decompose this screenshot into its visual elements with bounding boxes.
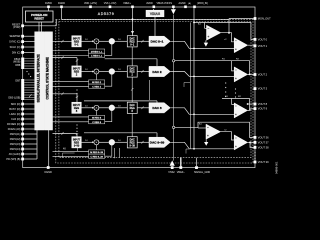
bottom pin VSS2 with input arrow	[168, 160, 175, 174]
svg-text:VREF–: VREF–	[177, 171, 186, 174]
svg-text:DCEN (A0): DCEN (A0)	[8, 128, 21, 131]
svg-text:DAC 8: DAC 8	[152, 106, 162, 110]
second sense rail	[189, 23, 191, 149]
right pin VOUT9	[254, 107, 268, 111]
mux arrow below amp C	[204, 139, 208, 146]
wire amp A to amp B	[221, 33, 234, 42]
junction rail row2	[193, 76, 195, 78]
svg-text:VSS (–15V): VSS (–15V)	[104, 2, 117, 5]
svg-text:C REG 9–39: C REG 9–39	[90, 156, 103, 158]
top pin VOFFS	[164, 2, 175, 8]
left pin BUSY	[9, 108, 34, 111]
wire c reg column row4 down	[119, 148, 121, 158]
wire DGND stub	[61, 8, 63, 20]
row2 feedback into amp	[232, 61, 235, 71]
wire adder to dac reg row1	[115, 39, 128, 41]
wire dac reg to dac 9-39	[137, 141, 149, 143]
bracket mark near signal gnd	[186, 149, 190, 154]
right pin VOUT38	[254, 145, 270, 149]
dac register 8	[127, 102, 137, 113]
svg-text:LDAC (D): LDAC (D)	[9, 113, 20, 116]
wire input reg to multiplier row3	[81, 106, 94, 109]
svg-text:DB0 (LSB): DB0 (LSB)	[8, 97, 20, 100]
svg-text:DAC 2: DAC 2	[152, 70, 162, 74]
svg-text:0–1: 0–1	[130, 43, 135, 46]
reference rail x193	[193, 8, 195, 149]
multiplier row4	[94, 140, 99, 145]
svg-text:DIN (C): DIN (C)	[12, 51, 21, 54]
row1 switch rail to amp B input	[189, 47, 234, 49]
outer dashed group box	[56, 20, 253, 163]
input register 0-1	[72, 36, 82, 47]
row3 switch rail to amp input	[189, 113, 234, 115]
left pin SCLK	[10, 46, 35, 49]
wire DVDD stub to POR	[48, 8, 50, 11]
svg-text:VBIAS: VBIAS	[156, 2, 163, 5]
wire adder to dac reg row3	[115, 106, 128, 108]
left pin RESET	[12, 20, 56, 29]
wire C reg up to adder row1	[105, 44, 112, 55]
svg-text:+: +	[110, 69, 113, 74]
svg-text:VDD (+15V): VDD (+15V)	[84, 2, 97, 5]
wire state machine to M reg row3	[53, 116, 89, 118]
svg-text:DAC 9–39: DAC 9–39	[150, 141, 165, 145]
bus annotation x40	[63, 148, 75, 159]
wire multiplier to adder row4	[99, 141, 109, 143]
top pin DGND	[58, 2, 65, 8]
row2 sense ring junction	[172, 60, 174, 62]
svg-text:+: +	[110, 140, 113, 145]
dac 9-39 pentagon	[149, 137, 170, 147]
wire state machine to C reg row2	[53, 85, 89, 87]
bus line to row2 input reg	[53, 58, 158, 66]
junction dot amp A output	[228, 32, 230, 34]
left pin FIFOEN	[7, 123, 35, 126]
svg-text:+: +	[110, 39, 113, 44]
channel continuation dots middle	[76, 89, 77, 97]
dac 2 pentagon	[149, 66, 170, 76]
top pin VREF	[123, 2, 134, 8]
C register 0-1	[89, 53, 105, 57]
svg-text:VOUT 1: VOUT 1	[258, 44, 268, 48]
svg-text:SCLK (C): SCLK (C)	[10, 46, 21, 49]
svg-text:RESET: RESET	[34, 17, 44, 21]
svg-text:SIGNAL_GND: SIGNAL_GND	[194, 171, 210, 174]
wire input reg to multiplier row4	[81, 140, 94, 143]
left pin SER/PAR	[10, 35, 35, 38]
left pin PD	[6, 158, 37, 161]
svg-text:VOUT 0: VOUT 0	[258, 37, 268, 41]
wire feedback to amp C input	[198, 127, 206, 129]
junction rail feedback row1	[193, 22, 195, 24]
row3 feedback line	[222, 96, 250, 110]
right pin VOUT37	[254, 140, 270, 144]
svg-text:SYNC (C): SYNC (C)	[9, 41, 20, 44]
interface block	[35, 32, 45, 130]
wire VBIAS pin to VBIAS buffer	[153, 9, 155, 10]
M register 2	[89, 80, 105, 84]
svg-text:VOUT 36: VOUT 36	[258, 135, 269, 139]
wire amp row3 to VOUT9	[248, 109, 254, 111]
adder row3	[109, 105, 115, 111]
parallel bus pins DB13-DB8	[13, 58, 34, 70]
svg-text:DB7: DB7	[15, 80, 20, 83]
wire state machine to M reg row4	[53, 150, 89, 152]
svg-text:×: ×	[95, 40, 97, 44]
row4 output switch	[170, 142, 189, 149]
bus line to row4 input reg	[53, 133, 158, 138]
bottom pin VREF- double wire	[177, 158, 186, 174]
VOFFS rail vertical full height	[173, 15, 175, 161]
multiplier M (x) row1	[94, 39, 99, 44]
svg-text:CONTROL STATE MACHINE: CONTROL STATE MACHINE	[45, 57, 49, 99]
M register 8	[89, 115, 105, 119]
svg-text:DSP/(A1): DSP/(A1)	[10, 133, 21, 136]
bus ellipsis dots	[26, 71, 31, 77]
wire C reg up to adder row3	[105, 111, 112, 122]
left pin A5	[9, 153, 37, 156]
svg-text:DSP/(A3): DSP/(A3)	[10, 143, 21, 146]
M register 0-1	[89, 49, 105, 53]
dac register 9-39	[127, 137, 137, 148]
svg-text:CLR (D): CLR (D)	[11, 118, 20, 121]
right pin VOUT2	[254, 73, 268, 77]
svg-text:DSP/(A2): DSP/(A2)	[10, 138, 21, 141]
bottom pin DGND	[45, 166, 53, 174]
wire state machine to C reg row3	[53, 121, 89, 123]
row3 feedback into amp	[232, 99, 235, 105]
left pin A4	[10, 148, 37, 151]
svg-text:AGND: AGND	[179, 2, 186, 5]
svg-text:SER/PAR: SER/PAR	[10, 35, 21, 38]
wire state machine to M reg row1	[53, 50, 89, 52]
svg-text:MON_OUT: MON_OUT	[258, 17, 271, 21]
svg-text:DB8: DB8	[15, 64, 20, 67]
op-amp row2	[234, 67, 247, 82]
wire adder to dac reg row2	[115, 69, 128, 71]
wire multiplier to adder row2	[99, 71, 109, 73]
VREF distribution rail	[62, 18, 229, 20]
wire state machine to C reg row4	[53, 155, 89, 157]
svg-text:FIFOEN (D): FIFOEN (D)	[7, 123, 20, 126]
C register 8	[89, 120, 105, 124]
op-amp D (row4 output buffer)	[234, 135, 247, 150]
junction rail row4	[193, 148, 195, 150]
svg-text:DSP/(A4): DSP/(A4)	[10, 148, 21, 151]
row2 feedback line	[175, 58, 250, 74]
svg-text:VBIAS: VBIAS	[150, 12, 161, 16]
top pin VSS	[104, 2, 117, 8]
left pin DIN	[12, 51, 35, 54]
wire POR to state machine	[41, 22, 43, 32]
wire amp D to VOUT37	[248, 141, 254, 143]
power-on reset block	[26, 11, 54, 22]
wire input reg to multiplier	[81, 39, 94, 42]
right pin VOUT1	[254, 44, 268, 48]
VREF rail vertical	[228, 19, 230, 33]
svg-text:C REG 0–1: C REG 0–1	[91, 56, 103, 58]
svg-text:VOUT 38: VOUT 38	[258, 145, 269, 149]
svg-text:VOFFS: VOFFS	[164, 2, 172, 5]
channel continuation dots middle bottom	[76, 124, 77, 132]
svg-text:SDO (D): SDO (D)	[11, 103, 21, 106]
wire amp row2 to VOUT2	[248, 73, 254, 75]
op-amp C (row4 gain amp)	[199, 123, 221, 140]
adder row4	[109, 139, 115, 145]
top pin DVDD	[45, 2, 52, 8]
right edge ellipsis dots	[254, 152, 255, 159]
svg-text:×: ×	[95, 70, 97, 74]
wire M reg up to multiplier row2	[95, 74, 97, 80]
svg-text:+: +	[110, 106, 113, 111]
top pin VBIAS	[146, 2, 164, 8]
vertical link dac reg rows 3-4	[131, 113, 133, 136]
VBIAS buffer block	[146, 10, 164, 17]
feedback loop row1	[194, 23, 254, 40]
left pin A1	[10, 133, 37, 136]
left pin LDAC	[9, 113, 34, 116]
right pin VOUT8	[254, 102, 268, 106]
wire M reg up to multiplier row3	[95, 110, 97, 115]
adder row2	[109, 69, 115, 75]
state machine block	[45, 32, 53, 130]
left pin A0	[8, 128, 35, 131]
input register 9-39	[72, 137, 82, 148]
svg-text:04696-001: 04696-001	[275, 161, 279, 174]
C register 2	[89, 84, 105, 88]
op-amp row3	[234, 103, 247, 118]
multiplier row2	[94, 69, 99, 74]
svg-text:9–39: 9–39	[130, 144, 136, 147]
svg-text:PD (SPI) (B): PD (SPI) (B)	[6, 158, 20, 161]
junction VREF rail	[132, 18, 134, 20]
op-amp A (row1 gain amp)	[198, 23, 221, 41]
wire C reg up to adder row2	[105, 74, 112, 86]
dac 8 pentagon	[149, 103, 170, 113]
feedback loop row4	[198, 122, 254, 137]
left pin SDO	[11, 103, 35, 106]
svg-text:0–1: 0–1	[75, 43, 80, 46]
left pin A3	[10, 143, 37, 146]
svg-text:VOUT 9: VOUT 9	[258, 107, 268, 111]
continuation bracket rows 2-3	[184, 83, 190, 88]
top pin MON_IN	[179, 2, 187, 8]
bottom pin SIGNAL_GND	[194, 166, 210, 174]
svg-text:×: ×	[95, 141, 97, 145]
inner dashed group box	[59, 22, 251, 158]
op-amp B (row1 output buffer)	[234, 38, 247, 53]
C register 9-39	[89, 154, 105, 158]
wire C reg up to adder row4	[105, 145, 112, 156]
wire VOUT8 stub	[247, 103, 254, 105]
left pin A2	[10, 138, 37, 141]
M register 9-39	[89, 150, 105, 154]
svg-text:(MON_IN): (MON_IN)	[197, 2, 208, 5]
VREF rail to monitor pin	[229, 18, 254, 20]
svg-text:A5 (GAIN): A5 (GAIN)	[9, 153, 21, 156]
row4 switch rail to amp D input	[189, 148, 234, 150]
input arrow VOFFS	[171, 8, 176, 14]
svg-text:C REG 2: C REG 2	[92, 86, 102, 88]
parallel bus pins DB7-DB0	[8, 79, 34, 100]
top pin VDD	[84, 2, 97, 8]
wire adder column row4 down	[114, 148, 116, 158]
row2 output switch	[170, 72, 189, 77]
wire input reg to multiplier row2	[81, 69, 94, 72]
wire feedback to amp A input	[205, 27, 207, 29]
right pin MON_OUT	[254, 17, 272, 21]
wire dac reg to dac 0-1	[137, 40, 149, 42]
svg-text:VREF+: VREF+	[123, 2, 131, 5]
left pin SYNC	[9, 40, 35, 43]
wire M reg up to multiplier row1	[95, 44, 97, 49]
wire POR to interface	[38, 22, 40, 32]
svg-text:DAC 0–1: DAC 0–1	[151, 40, 164, 44]
svg-text:VSS2: VSS2	[168, 171, 175, 174]
dac register 0-1	[127, 36, 137, 47]
svg-text:(A): (A)	[188, 2, 191, 5]
wire amp B to VOUT1	[248, 44, 254, 47]
lower pin collector rail	[36, 130, 38, 159]
left pin CLR	[11, 118, 35, 121]
top pin MON_IN	[188, 2, 208, 8]
wire stub VOUT38	[249, 142, 254, 148]
wire multiplier to adder row3	[99, 107, 109, 109]
bus line to row3 input reg	[53, 94, 158, 103]
right pin VOUT39	[254, 160, 270, 164]
row4 sense ring junction	[172, 126, 174, 128]
right pin VOUT0	[254, 37, 268, 41]
junction rail/switch	[193, 48, 195, 50]
dac register 2	[127, 66, 137, 77]
svg-text:BUSY (D): BUSY (D)	[9, 108, 20, 111]
svg-text:VOUT 3: VOUT 3	[258, 87, 268, 91]
svg-text:VOUT 39: VOUT 39	[258, 160, 269, 164]
right pin VOUT36	[254, 135, 270, 139]
svg-text:(POR): (POR)	[13, 26, 20, 29]
wire amp C to amp D	[221, 128, 235, 140]
sense return rail row2	[148, 80, 150, 100]
vertical link dac reg rows 1-2	[131, 47, 133, 66]
wire dac reg to dac 8	[137, 107, 149, 109]
svg-text:AVDD: AVDD	[146, 2, 153, 5]
multiplier row3	[94, 105, 99, 110]
svg-text:AD5379: AD5379	[98, 12, 115, 16]
wire VBIAS rail down to DAC 0-1	[154, 17, 156, 37]
row2 switch rail to amp input	[189, 75, 234, 77]
row3 output switch	[170, 108, 189, 115]
svg-text:DGND: DGND	[45, 171, 53, 174]
row1 output switch	[170, 41, 189, 48]
svg-text:×: ×	[95, 106, 97, 110]
wire M reg up to multiplier row4	[95, 145, 97, 150]
wire VREF down to dac reg column	[132, 8, 134, 36]
mux arrow below amp A	[204, 40, 208, 46]
svg-text:9–39: 9–39	[74, 144, 80, 147]
continuation dots column rows 2-3	[225, 82, 226, 97]
svg-text:SERIAL/PARALLEL INTERFACE: SERIAL/PARALLEL INTERFACE	[37, 54, 41, 102]
wire multiplier to adder	[99, 40, 109, 42]
adder row1	[109, 38, 115, 44]
stub below input reg 9-39	[76, 148, 78, 151]
svg-text:VOUT 2: VOUT 2	[258, 73, 268, 77]
channel dots right	[235, 88, 236, 97]
junction VOUT2 feedback	[249, 74, 251, 76]
dac 0-1 pentagon	[149, 36, 170, 46]
rail bottom to signal gnd pin	[196, 158, 198, 166]
wire interface to input reg 0-1	[53, 40, 72, 42]
wire dac reg to dac 2	[137, 71, 149, 73]
junction rail row3	[193, 113, 195, 115]
svg-text:DGND: DGND	[58, 2, 65, 5]
arrowhead into dac reg 0-1	[131, 31, 134, 34]
svg-text:DVDD: DVDD	[45, 2, 52, 5]
bus slash marks	[29, 40, 144, 144]
input register 8	[72, 102, 82, 113]
wire state machine to C reg row1	[53, 55, 89, 57]
vertical link dac reg rows 2-3	[131, 77, 133, 102]
right pin VOUT3-7	[254, 87, 268, 91]
wire adder to dac reg row4	[115, 140, 128, 142]
svg-text:VOUT 8: VOUT 8	[258, 102, 268, 106]
svg-text:VOUT 37: VOUT 37	[258, 140, 269, 144]
input register 2	[72, 66, 82, 77]
chip outline border	[23, 7, 255, 168]
row4 sense line to feedback	[175, 126, 198, 128]
svg-text:C REG 8: C REG 8	[92, 122, 102, 124]
wire state machine to M reg row2	[53, 80, 89, 82]
wire DGND rail from state machine to bottom pin	[48, 130, 50, 166]
